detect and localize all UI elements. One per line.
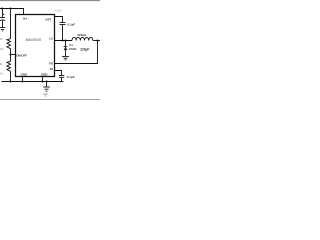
svg-text:220µH: 220µH xyxy=(77,33,87,37)
svg-text:V+: V+ xyxy=(23,17,27,21)
svg-text:0.1µF: 0.1µF xyxy=(68,23,76,27)
svg-text:LX: LX xyxy=(49,37,53,41)
svg-text:0.1µF: 0.1µF xyxy=(67,75,75,79)
svg-text:0.1µF: 0.1µF xyxy=(55,10,62,13)
svg-text:GND: GND xyxy=(41,73,47,77)
svg-text:GND: GND xyxy=(21,73,27,77)
svg-text:SS: SS xyxy=(50,67,54,71)
svg-text:ON/OFF: ON/OFF xyxy=(16,53,27,57)
svg-text:220µF: 220µF xyxy=(80,48,89,52)
svg-text:MAX5035: MAX5035 xyxy=(26,38,41,42)
svg-text:ES1D: ES1D xyxy=(69,47,76,51)
svg-text:FB: FB xyxy=(49,61,53,65)
svg-text:BST: BST xyxy=(46,17,52,21)
